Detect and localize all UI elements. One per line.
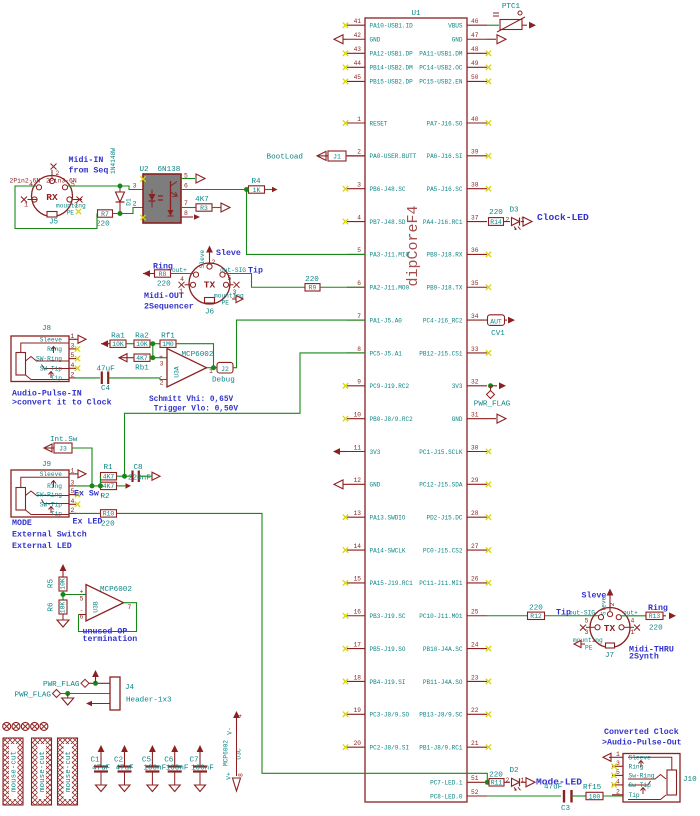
U1 pin 46 VBUS [448,18,487,30]
svg-text:U3A: U3A [174,366,181,377]
wire Rf1 to output [176,344,214,368]
power arrow R5 top [62,569,64,577]
optocoupler U2 6N138 [133,166,181,223]
svg-text:mouse-cut: mouse-cut [11,751,19,792]
svg-text:PB5-J19.SO: PB5-J19.SO [370,646,406,653]
svg-text:PC0-J15.CS2: PC0-J15.CS2 [423,547,463,554]
svg-text:mouse-cut: mouse-cut [65,751,73,792]
resistor Rf1 1M0 [160,333,176,349]
svg-text:4: 4 [71,498,75,505]
svg-text:MCP6002: MCP6002 [182,351,214,359]
wire RX pin4 net [15,186,97,229]
svg-text:47uF: 47uF [116,765,135,773]
svg-text:R12: R12 [530,613,542,620]
svg-text:Sleeve: Sleeve [40,336,63,343]
svg-text:dipCoreF4: dipCoreF4 [405,205,422,286]
op-amp U3B [80,585,133,622]
svg-text:2Sequencer: 2Sequencer [144,303,194,312]
PWR_FLAG (right) [474,386,511,409]
svg-text:29: 29 [471,477,479,484]
svg-text:PA5-J16.SC: PA5-J16.SC [426,186,462,193]
svg-text:100nF: 100nF [191,765,214,773]
node Ra2/Rf1 junction [150,343,160,345]
svg-text:PA15-J19.RC1: PA15-J19.RC1 [370,580,414,587]
svg-text:R13: R13 [649,613,661,620]
U1 pin 50 PC15-USB2.EN [419,74,491,86]
connector J2 Debug [212,362,235,384]
svg-text:MCP6002: MCP6002 [100,586,132,594]
wire J9 Tip to R10 [75,512,101,514]
U1 pin 40 PA7-J16.SO [426,116,491,128]
svg-text:2: 2 [160,380,164,387]
IC U1 dipCoreF4 body [365,10,467,802]
svg-text:R4: R4 [251,178,261,186]
svg-text:3: 3 [357,182,361,189]
svg-text:+: + [80,589,84,596]
svg-text:R7: R7 [101,211,109,218]
PWR_FLAG (J4 mid) [15,690,110,700]
svg-text:GND: GND [452,37,463,44]
LED D2 [504,767,525,791]
U1 pin 33 PB12-J15.CS1 [419,346,491,358]
svg-text:C4: C4 [101,385,111,393]
svg-text:GND: GND [370,37,381,44]
U1 pin 10 PB0-J8/9.RC2 [343,411,413,423]
svg-text:D3: D3 [509,207,519,215]
svg-text:7: 7 [184,200,188,207]
connector J7 DIN TX [573,602,640,660]
svg-text:R14: R14 [490,219,502,226]
svg-text:from Seq: from Seq [69,166,109,176]
svg-text:PC9-J19.RC2: PC9-J19.RC2 [370,383,410,390]
U1 pin 13 PA13.SWDIO [343,510,406,522]
svg-text:1M0: 1M0 [162,341,174,348]
svg-text:Schmitt Vhi: 0,65V: Schmitt Vhi: 0,65V [149,396,234,404]
U1 pin 17 PB5-J19.SO [343,641,406,653]
wire R9 to U1 pin6 [320,286,365,288]
svg-text:PA3-J11.MI0: PA3-J11.MI0 [370,252,410,259]
svg-text:30: 30 [471,444,479,451]
J4 pin3 arrow [86,701,110,707]
svg-text:PB14-USB2.DM: PB14-USB2.DM [370,65,414,72]
svg-text:TX: TX [604,623,616,634]
svg-text:2: 2 [506,777,510,784]
svg-text:52: 52 [471,789,479,796]
svg-text:21: 21 [471,740,479,747]
capacitor C8 220nF [128,464,151,483]
svg-text:J10: J10 [683,776,697,784]
svg-text:PA12-USB1.DP: PA12-USB1.DP [370,51,414,58]
svg-text:Ring: Ring [648,603,668,613]
svg-text:47uF: 47uF [544,784,563,792]
wire R1/R2 left junction [100,476,102,486]
svg-text:U2: U2 [140,166,150,174]
arrow after R2 [117,483,132,489]
svg-text:26: 26 [471,576,479,583]
svg-text:Sleeve: Sleeve [40,471,63,478]
svg-text:3: 3 [71,342,75,349]
svg-text:PD2-J15.DC: PD2-J15.DC [426,515,462,522]
svg-text:4: 4 [237,714,244,718]
resistor Ra1 10K [110,333,126,349]
svg-text:U1: U1 [411,10,421,18]
svg-text:5: 5 [80,596,84,603]
svg-text:7: 7 [357,313,361,320]
svg-text:J4: J4 [125,684,135,692]
svg-text:33: 33 [471,346,479,353]
svg-text:10K: 10K [60,578,67,590]
wire J2 to U1 pin7 [233,320,365,368]
svg-text:PE: PE [67,210,75,217]
wire J7 pin4 to R13 [622,615,647,617]
wire RX pin5 to D1/U2 [67,186,143,190]
svg-text:mounting: mounting [56,203,86,210]
U1 pin 29 PC12-J15.SDA [419,477,491,489]
node U3A output junction [207,365,218,370]
svg-text:SW-Ring: SW-Ring [36,492,62,499]
U1 pin 7 PA1-J5.A0 [347,313,402,325]
svg-text:VBUS: VBUS [448,23,463,30]
svg-text:PB1-J8/9.RC1: PB1-J8/9.RC1 [419,744,463,751]
svg-text:7: 7 [128,604,132,611]
svg-text:220: 220 [529,605,543,613]
connector J9 audio jack [11,461,86,517]
svg-text:11: 11 [354,444,362,451]
svg-text:37: 37 [471,214,479,221]
svg-text:3: 3 [160,361,164,368]
svg-text:AUT: AUT [490,318,502,325]
wire U1 pin25 to R12 [487,615,527,617]
wire U3B feedback loop [79,603,137,632]
capacitor C2 47uF [114,745,134,792]
svg-text:PC8-LED.0: PC8-LED.0 [430,793,463,800]
svg-text:C2: C2 [114,757,124,765]
svg-text:6: 6 [184,183,188,190]
svg-text:47uF: 47uF [97,366,116,374]
op-amp U3C power pins [223,711,245,791]
svg-text:10K: 10K [112,341,124,348]
resistor R13 220 [646,612,676,632]
svg-text:Tip: Tip [51,510,62,517]
svg-text:C6: C6 [164,757,174,765]
svg-text:RX: RX [46,192,58,203]
text note Midi-THRU 2Synth [629,645,674,662]
svg-text:PC1-J15.SCLK: PC1-J15.SCLK [419,449,463,456]
resistor Rb1 4K7 [134,354,150,373]
wire R7 to U2 pin2 [113,208,144,214]
svg-text:C7: C7 [190,757,199,765]
resistor R7 220 [96,210,113,229]
U1 pin 18 PB4-J19.SI [343,674,406,686]
resistor R12 220 [528,605,545,621]
svg-text:2: 2 [71,371,75,378]
svg-text:12: 12 [354,477,362,484]
svg-text:Sw-Ring: Sw-Ring [629,772,655,779]
svg-text:6: 6 [357,280,361,287]
svg-text:PA14-SWCLK: PA14-SWCLK [370,547,406,554]
svg-text:39: 39 [471,149,479,156]
svg-text:5: 5 [616,769,620,776]
svg-text:V+: V+ [226,772,233,780]
wire J8 Tip to C4 [75,377,100,379]
svg-text:R5: R5 [48,579,56,589]
ground (J4) [62,694,74,706]
wire R1 to C8 [117,474,132,479]
text note unused-OP termination [83,627,138,645]
PWR_FLAG (J4 top) [43,670,110,689]
text note Audio-Pulse-IN [12,389,112,408]
U1 pin 47 GND [452,32,506,44]
U1 pin 45 PB15-USB2.DP [343,74,413,86]
resistor R4 1K [249,178,278,194]
U1 pin 11 3V3 [333,444,381,456]
U1 pin 14 PA14-SWCLK [343,543,406,555]
svg-text:PB3-J19.SC: PB3-J19.SC [370,613,406,620]
svg-text:PE: PE [585,645,593,652]
svg-text:R9: R9 [309,285,317,292]
svg-text:PTC1: PTC1 [502,3,521,11]
svg-text:Ring: Ring [47,483,62,490]
svg-text:13: 13 [354,510,362,517]
svg-text:Header-1x3: Header-1x3 [126,697,172,705]
ground (below R6) [57,614,69,627]
text note Schmitt Trigger [149,396,238,414]
svg-text:PB10-J4A.SC: PB10-J4A.SC [423,646,463,653]
svg-text:CV1: CV1 [491,330,505,338]
svg-text:8: 8 [357,346,361,353]
svg-text:R8: R8 [159,271,167,278]
svg-text:Midi-OUT: Midi-OUT [144,291,184,301]
svg-text:3V3: 3V3 [452,383,463,390]
connector J3 Int.Sw [44,436,78,453]
svg-text:J7: J7 [605,652,614,660]
svg-text:PC15-USB2.EN: PC15-USB2.EN [419,79,463,86]
U2 pin6 wire to R4 [181,183,247,190]
svg-text:3: 3 [616,760,620,767]
resistor Rf15 100 [583,784,603,800]
svg-text:2: 2 [71,507,75,514]
capacitor C6 100nF [164,745,189,792]
connector J6 DIN TX [179,259,244,317]
hierarchical label Mode-LED [521,776,582,787]
power arrow (Ra1 left) [101,340,110,347]
svg-text:Ra1: Ra1 [111,333,125,341]
wire R12 to J7 [545,615,600,617]
svg-text:41: 41 [354,18,362,25]
arrow after C8 [139,472,160,480]
svg-text:47: 47 [471,32,479,39]
resistor R6 10K (vertical) [48,600,68,614]
resistor R5 10K (vertical) [48,577,68,591]
resistor Ra2 10K [134,333,150,349]
svg-text:PB15-USB2.DP: PB15-USB2.DP [370,79,414,86]
svg-text:4: 4 [357,214,361,221]
wire TX pin5 to R9 [225,274,305,288]
U1 pin 32 3V3 [452,379,487,391]
svg-text:4: 4 [631,618,635,625]
U1 pin 22 PB13-J8/9.SC [419,707,491,719]
svg-text:Ring: Ring [47,346,62,353]
LED D3 [504,207,525,230]
svg-text:PC2-J8/9.SI: PC2-J8/9.SI [370,744,410,751]
U1 pin 31 GND [452,411,506,423]
svg-text:2Synth: 2Synth [629,652,659,662]
U1 pin 43 PA12-USB1.DP [343,46,413,58]
wire C3 to Rf15 [572,795,587,797]
U1 pin 5 PA3-J11.MI0 [347,247,410,259]
wire R10 long net to U1 pin51 [117,513,488,782]
svg-text:J5: J5 [49,219,59,227]
svg-text:1N4148W: 1N4148W [110,148,117,174]
text note Converted Clock Audio-Pulse-Out [602,727,682,748]
svg-text:220: 220 [489,209,503,217]
mouse-cut bar 1 [3,738,23,805]
svg-text:2: 2 [609,602,616,606]
wire C4 to U3A- [108,378,167,380]
svg-text:24: 24 [471,641,479,648]
svg-text:38: 38 [471,182,479,189]
svg-text:Converted Clock: Converted Clock [604,727,679,737]
svg-text:2Pin3-6N: 2Pin3-6N [46,178,77,185]
U1 pin 37 PA4-J16.RC1 [423,214,487,226]
text note MODE External Switch External LED [12,519,87,551]
svg-text:46: 46 [471,18,479,25]
svg-text:220: 220 [96,221,110,229]
svg-text:Trigger Vlo: 0,50V: Trigger Vlo: 0,50V [154,406,239,414]
svg-text:PA6-J16.SI: PA6-J16.SI [426,153,462,160]
svg-text:Tip: Tip [629,792,640,799]
svg-text:48: 48 [471,46,479,53]
svg-text:16: 16 [354,609,362,616]
U1 pin 21 PB1-J8/9.RC1 [419,740,491,752]
svg-text:C1: C1 [91,757,101,765]
svg-text:C5: C5 [142,757,152,765]
U1 pin 1 RESET [343,116,388,128]
svg-text:44: 44 [354,60,362,67]
svg-text:BootLoad: BootLoad [267,154,303,162]
svg-text:PB0-J8/9.RC2: PB0-J8/9.RC2 [370,416,414,423]
svg-text:MCP6002: MCP6002 [223,740,230,766]
U1 pin 27 PC0-J15.CS2 [423,543,491,555]
svg-text:PC4-J16_RC2: PC4-J16_RC2 [423,317,463,324]
svg-text:47uF: 47uF [92,765,111,773]
svg-text:PB11-J4A.SO: PB11-J4A.SO [423,679,463,686]
svg-text:PE: PE [222,300,230,307]
svg-text:4: 4 [71,362,75,369]
svg-text:PB4-J19.SI: PB4-J19.SI [370,679,406,686]
svg-text:mounting: mounting [214,293,244,300]
label out-SIG Tip [220,266,263,276]
svg-text:mounting: mounting [573,637,603,644]
svg-text:35: 35 [471,280,479,287]
svg-text:20: 20 [354,740,362,747]
svg-text:Rf1: Rf1 [161,333,175,341]
svg-text:100nF: 100nF [166,765,189,773]
wire J3 to Ring net [72,448,92,486]
svg-text:1: 1 [521,777,525,784]
node R4 junction [244,187,249,192]
U1 pin 42 GND [334,32,381,44]
svg-text:2: 2 [506,216,510,223]
svg-text:PB13-J8/9.SC: PB13-J8/9.SC [419,712,463,719]
svg-text:PB6-J48.SC: PB6-J48.SC [370,186,406,193]
power 3V3 arrow [488,382,506,389]
power Sleve arrow (J6) [199,246,241,269]
resistor R3 4K7 [195,196,230,212]
svg-text:4K7: 4K7 [136,355,148,362]
svg-text:28: 28 [471,510,479,517]
text note Midi-IN from Seq [69,155,109,176]
wire J9 Ring to R1/R2 [75,476,103,488]
svg-text:J3: J3 [59,445,67,452]
svg-text:32: 32 [471,379,479,386]
U1 pin 24 PB10-J4A.SC [423,641,491,653]
U1 pin 52 PC8-LED.0 [430,789,487,801]
svg-text:14: 14 [354,543,362,550]
svg-text:SW-Ring: SW-Ring [36,356,62,363]
U1 pin 19 PC3-J8/9.SO [343,707,410,719]
node diode top junction [118,184,123,189]
svg-text:Rf15: Rf15 [583,784,602,792]
wire to U1 pin5 [247,190,366,255]
svg-text:PA0-USER.BUTT: PA0-USER.BUTT [370,153,417,160]
svg-text:23: 23 [471,674,479,681]
svg-text:2Pin2-6N: 2Pin2-6N [10,178,41,185]
svg-text:out-SIG: out-SIG [569,610,595,617]
svg-text:40: 40 [471,116,479,123]
svg-text:RESET: RESET [370,120,388,127]
svg-text:4K7: 4K7 [103,474,115,481]
svg-text:220: 220 [157,281,171,289]
svg-text:5: 5 [357,247,361,254]
svg-text:22: 22 [471,707,479,714]
svg-text:PC3-J8/9.SO: PC3-J8/9.SO [370,712,410,719]
connector J12 AUT / CV1 [488,315,516,338]
capacitor C3 47uF [544,784,572,814]
svg-text:Rb1: Rb1 [135,365,149,373]
svg-text:Midi-IN: Midi-IN [69,155,104,165]
svg-text:External Switch: External Switch [12,530,87,540]
U2 pin7 to R3 [181,200,196,208]
U1 pin 28 PD2-J15.DC [426,510,491,522]
svg-text:1: 1 [179,288,183,295]
connector J8 audio jack [11,325,86,382]
connector J10 audio jack [603,751,697,802]
svg-text:Ex LED: Ex LED [73,518,103,527]
svg-text:1: 1 [71,333,75,340]
svg-text:Audio-Pulse-IN: Audio-Pulse-IN [12,389,82,399]
node pin51 junction [485,780,490,785]
svg-text:Sleve: Sleve [216,248,241,258]
svg-text:Tip: Tip [51,375,62,382]
svg-text:2: 2 [133,201,137,208]
mouse-cut bar 2 [32,738,52,805]
U1 pin 6 PA2-J11.MO0 [347,280,410,292]
svg-text:4: 4 [180,276,184,283]
svg-text:GND: GND [452,416,463,423]
svg-text:R1: R1 [103,464,113,472]
svg-text:External LED: External LED [12,541,72,551]
svg-text:Debug: Debug [212,377,235,385]
svg-text:45: 45 [354,74,362,81]
svg-text:4K7: 4K7 [195,196,209,204]
U1 pin 48 PA11-USB1.DM [419,46,491,58]
U1 pin 4 PB7-J48.SD [343,214,406,226]
svg-text:PB9-J18.TX: PB9-J18.TX [426,285,462,292]
svg-text:5: 5 [585,618,589,625]
svg-text:GND: GND [370,482,381,489]
capacitor C5 100nF [142,745,167,792]
